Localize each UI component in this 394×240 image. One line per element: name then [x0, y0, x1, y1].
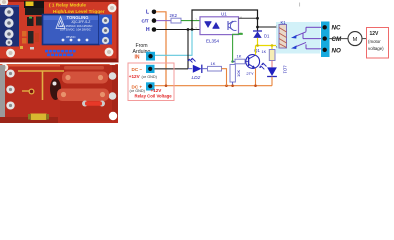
svg-text:voltage): voltage) — [368, 46, 384, 51]
svg-text:Relay Coil Voltage: Relay Coil Voltage — [135, 93, 173, 98]
svg-text:( 1 Relay Module: ( 1 Relay Module — [49, 2, 86, 7]
terminal IN — [135, 52, 156, 61]
op-amp U1 optocoupler EL354 — [195, 11, 242, 43]
svg-text:NO: NO — [332, 47, 341, 54]
svg-text:2K2: 2K2 — [170, 13, 178, 18]
svg-text:(motor: (motor — [368, 39, 381, 44]
LED LD1 — [259, 63, 288, 77]
svg-text:DC −: DC − — [132, 67, 143, 72]
relay contact arm NO side — [291, 42, 306, 49]
photo: relay module front (top-left) — [0, 0, 118, 62]
svg-text:+12V: +12V — [151, 88, 163, 93]
contact pole post — [302, 33, 304, 39]
svg-text:10K: 10K — [236, 70, 241, 77]
svg-text:H: H — [146, 27, 150, 33]
junction rail/Q1 emitter — [254, 84, 257, 87]
ground/bottom rail DC+ (orange) — [151, 85, 273, 87]
wire D1 anode down / collector node (yellow) — [257, 38, 259, 46]
wire top rail (black) H-line up and over U1 to D1 cathode — [192, 10, 258, 31]
relay K1 highlight — [276, 22, 320, 54]
resistor R 1K (LD2 series) — [208, 61, 222, 71]
wire motor to 12V box — [362, 38, 367, 40]
svg-text:4: 4 — [240, 16, 242, 20]
svg-text:LD1: LD1 — [283, 66, 288, 75]
LED LD2 — [187, 58, 202, 81]
wire LD1 cathode to rail (orange) — [271, 77, 273, 86]
junction yellow at D1/collector — [256, 44, 259, 47]
resistor R 1K (base) — [235, 53, 249, 63]
wire H to U1 pin2 (black) — [156, 29, 200, 31]
relay coil K1 — [276, 20, 287, 49]
wire contacts to terminals (violet) — [306, 26, 322, 28]
wire R1K to rail (orange) — [222, 69, 227, 86]
junction yellow at LED resistor — [271, 44, 274, 47]
annotation box relay coil voltage — [128, 63, 174, 101]
svg-text:High/Low Level Trigger: High/Low Level Trigger — [53, 9, 105, 14]
junction rail/L wire — [165, 84, 168, 87]
wire base node to R 1K (thin) — [233, 61, 235, 63]
node L (trigger select pin) — [146, 10, 156, 16]
resistor R 10K (pull-down) — [230, 65, 241, 86]
wire R2K2 to U1 pin1 (green) — [181, 20, 200, 22]
wire IN to U1 input (cyan) — [155, 31, 192, 56]
photo: relay module PCB back (bottom-left) — [0, 63, 118, 123]
svg-text:U1: U1 — [221, 11, 227, 16]
wire rail to relay coil top (black) — [258, 26, 279, 28]
junction at H branch — [187, 28, 190, 31]
svg-text:(or GND): (or GND) — [142, 75, 158, 79]
node C/T (trigger select common pin) — [142, 18, 157, 23]
motor M — [348, 32, 362, 46]
svg-text:LD2: LD2 — [192, 75, 201, 81]
svg-text:10A 30VDC 10A 28VDC: 10A 30VDC 10A 28VDC — [60, 28, 91, 32]
svg-text:From: From — [136, 43, 148, 49]
svg-text:IN: IN — [135, 54, 140, 60]
svg-text:1K: 1K — [211, 61, 216, 66]
wire LD2 to R1K — [202, 68, 208, 70]
wire U1 pin4 to +rail (dark) — [239, 17, 258, 19]
annotation box +12V motor voltage — [367, 28, 389, 59]
wire L to bottom rail (orange) — [156, 12, 166, 86]
svg-text:CM: CM — [332, 36, 342, 43]
svg-text:C/T: C/T — [142, 19, 149, 24]
junction rail/coil feed — [256, 26, 259, 29]
wire U1 pin3 to base node (green) — [233, 33, 243, 61]
resistor R (LD1 series, 1K) — [262, 50, 276, 68]
svg-text:L: L — [146, 10, 149, 16]
svg-text:NC: NC — [332, 25, 341, 32]
terminal block NC/CM/NO — [321, 22, 330, 58]
svg-text:2TY: 2TY — [246, 71, 254, 76]
svg-text:05VDC: 05VDC — [66, 35, 77, 39]
junction pin4/top rail — [256, 17, 259, 20]
node H (trigger select pin) — [146, 27, 156, 33]
terminal DC- — [132, 65, 155, 73]
node base junction — [231, 60, 234, 63]
svg-text:+12V: +12V — [129, 74, 141, 79]
svg-text:(or GND): (or GND) — [130, 89, 146, 93]
label +12V (or GND) — [129, 74, 158, 79]
relay contact arm NC side — [291, 27, 306, 38]
junction rail/10K — [231, 84, 234, 87]
wire C/T to R2K2 (violet) — [156, 20, 171, 22]
svg-text:12V: 12V — [370, 31, 380, 37]
wire H branch down to LD2 anode (black) — [187, 30, 189, 69]
svg-text:I: I — [299, 3, 301, 9]
wire Q1 emitter to rail (orange) — [255, 69, 257, 86]
label (or GND) +12V — [130, 88, 163, 93]
label From Arduino — [133, 43, 151, 55]
wire CM to motor — [330, 38, 349, 40]
resistor 2K2 — [170, 13, 182, 23]
svg-text:D1: D1 — [264, 33, 270, 38]
svg-text:M: M — [353, 37, 358, 43]
transistor Q1 — [246, 48, 261, 76]
wire DC- to LD2 node (dark gray) — [155, 68, 189, 70]
svg-text:1K: 1K — [237, 53, 242, 58]
terminal DC+ — [132, 82, 155, 90]
diode D1 — [253, 31, 270, 38]
svg-text:1K: 1K — [262, 50, 267, 54]
junction H / top rail / IN wire — [191, 28, 194, 31]
svg-text:EL354: EL354 — [206, 38, 220, 43]
wire yellow bus to relay coil bottom — [256, 45, 279, 47]
junction rail/LD2 branch — [225, 84, 228, 87]
wire yellow drop to R LED — [271, 46, 273, 50]
